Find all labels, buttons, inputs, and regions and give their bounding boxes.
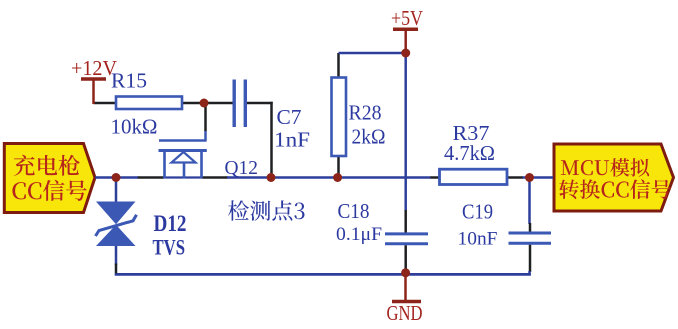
svg-text:R15: R15 — [111, 69, 147, 93]
svg-text:R28: R28 — [349, 101, 382, 125]
svg-text:10kΩ: 10kΩ — [111, 115, 158, 139]
svg-text:+5V: +5V — [391, 6, 423, 30]
svg-text:4.7kΩ: 4.7kΩ — [444, 141, 495, 165]
svg-text:TVS: TVS — [153, 234, 186, 259]
svg-text:C18: C18 — [338, 199, 370, 223]
svg-text:0.1μF: 0.1μF — [336, 224, 382, 245]
svg-text:1nF: 1nF — [274, 128, 310, 152]
svg-text:C7: C7 — [277, 105, 302, 129]
svg-text:2kΩ: 2kΩ — [352, 125, 386, 149]
svg-text:D12: D12 — [154, 211, 187, 236]
svg-text:Q12: Q12 — [225, 157, 259, 179]
svg-text:C19: C19 — [462, 200, 493, 224]
svg-text:10nF: 10nF — [458, 229, 498, 250]
svg-text:GND: GND — [387, 301, 423, 324]
